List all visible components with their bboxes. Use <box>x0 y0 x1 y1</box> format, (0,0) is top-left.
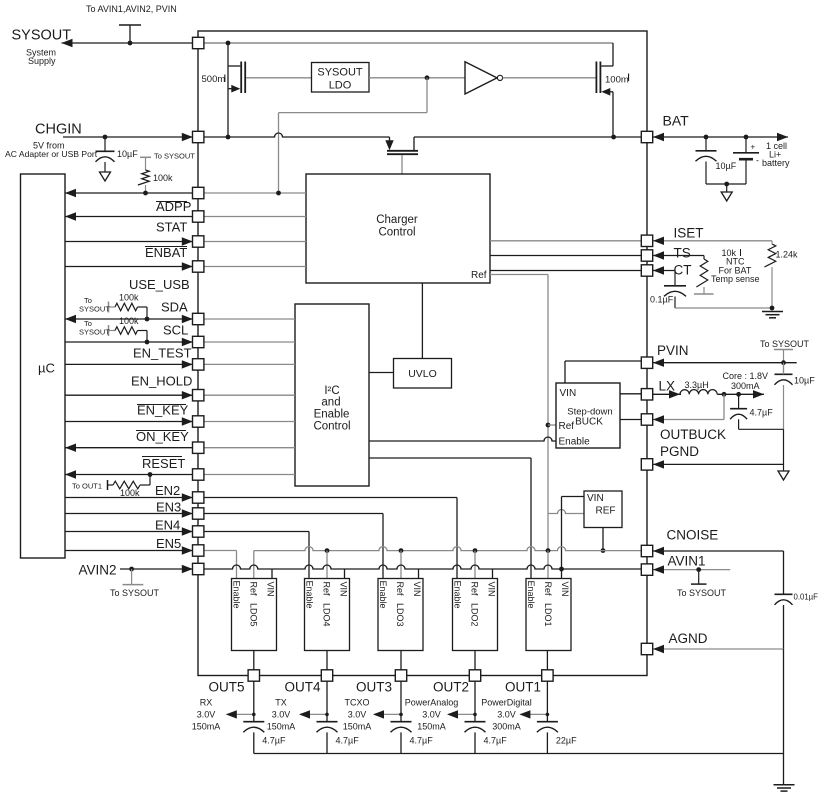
wire inverter output to 100m gate <box>503 77 597 79</box>
svg-text:SYSOUT: SYSOUT <box>79 328 110 337</box>
svg-text:10µF: 10µF <box>794 376 815 386</box>
svg-text:Ref: Ref <box>249 582 259 597</box>
node ADPP feedback junction <box>276 191 281 196</box>
wire STAT <box>65 212 306 220</box>
svg-text:UVLO: UVLO <box>408 368 437 380</box>
node ADPP pullup junction <box>143 191 148 196</box>
transistor 100m pass FET <box>596 43 613 137</box>
svg-text:To SYSOUT: To SYSOUT <box>760 339 810 349</box>
svg-text:OUTBUCK: OUTBUCK <box>660 427 726 442</box>
wire USE_USB <box>65 262 306 270</box>
wire battery ground rail <box>706 183 746 185</box>
label EN4 <box>155 518 180 533</box>
svg-text:300mA: 300mA <box>492 722 521 732</box>
wire VIN REF supply loop <box>562 497 585 579</box>
svg-text:BAT: BAT <box>663 113 690 129</box>
wire RESET <box>65 470 295 478</box>
wire inductor to output node <box>717 390 764 398</box>
wire AVIN2 input <box>120 565 193 573</box>
svg-text:VIN: VIN <box>560 388 577 399</box>
node battery ground junction <box>724 182 729 187</box>
label SDA <box>161 300 188 315</box>
svg-text:and: and <box>321 397 340 409</box>
wire EN_KEY <box>65 417 295 425</box>
regulator LDO5 <box>232 579 277 651</box>
label Core 1.8V 300mA <box>723 371 769 391</box>
svg-text:USE_USB: USE_USB <box>129 277 190 292</box>
svg-text:OUT1: OUT1 <box>505 680 541 695</box>
wire ON_KEY <box>65 444 295 452</box>
svg-text:Ref: Ref <box>471 270 487 281</box>
label 500m <box>202 74 226 85</box>
pin EN_KEY <box>193 416 204 427</box>
wire LDO2 VIN feed <box>492 569 494 579</box>
node SCL pullup junction <box>145 340 150 345</box>
svg-text:LDO4: LDO4 <box>322 603 332 627</box>
wire LDO3 VIN feed <box>418 569 420 579</box>
node AVIN1 tap <box>696 567 701 572</box>
terminal To SYSOUT pullup SCL <box>79 319 115 337</box>
svg-text:OUT3: OUT3 <box>356 680 392 695</box>
transistor charger pass FET Q3 <box>385 137 418 154</box>
terminal To SYSOUT pullup SDA <box>79 296 115 314</box>
capacitor 4.7uF at buck <box>730 394 773 429</box>
svg-text:4.7µF: 4.7µF <box>262 736 286 746</box>
svg-text:VIN: VIN <box>587 493 604 504</box>
label ISET <box>674 226 704 241</box>
svg-text:AGND: AGND <box>669 631 708 646</box>
wire 500m gate to SYSOUT LDO <box>246 77 312 79</box>
wire SYSOUT rail <box>204 42 614 44</box>
microcontroller uC box <box>21 174 66 558</box>
svg-text:22µF: 22µF <box>556 736 577 746</box>
wire LDO1 output <box>546 651 548 671</box>
capacitor 10uF at CHGIN <box>96 137 139 172</box>
label LX <box>659 379 676 394</box>
inverter U1 <box>465 62 503 94</box>
svg-text:VIN: VIN <box>412 582 422 597</box>
block Step-down BUCK <box>556 383 620 448</box>
wire buck to OUTBUCK pin <box>620 419 641 421</box>
svg-text:VIN: VIN <box>487 582 497 597</box>
svg-text:To OUT1: To OUT1 <box>72 482 102 491</box>
pin OUT1 <box>542 670 553 681</box>
svg-text:+: + <box>751 143 756 152</box>
pin EN4 <box>193 526 204 537</box>
svg-text:TX: TX <box>275 698 287 708</box>
svg-text:3.0V: 3.0V <box>197 710 216 720</box>
wire AVIN VIN bus <box>204 565 642 569</box>
svg-text:TCXO: TCXO <box>344 698 369 708</box>
svg-text:VIN: VIN <box>266 582 276 597</box>
svg-text:µC: µC <box>38 361 55 376</box>
wire PGND <box>653 429 784 471</box>
svg-text:ENBAT: ENBAT <box>145 245 187 260</box>
pin ADPP <box>193 187 204 198</box>
svg-text:PowerAnalog: PowerAnalog <box>405 698 459 708</box>
inductor 3.3uH <box>680 380 717 394</box>
label CT <box>674 263 692 278</box>
svg-text:I²C: I²C <box>324 385 339 397</box>
ground at 1.24k <box>762 312 783 318</box>
svg-text:Enable: Enable <box>314 409 350 421</box>
pin TS <box>641 250 652 261</box>
wire PVIN input <box>653 359 797 367</box>
wire OUT1 output <box>546 681 548 722</box>
node LDO output junction <box>425 75 430 80</box>
wire LDO4 output <box>326 651 328 671</box>
svg-text:Control: Control <box>378 227 415 239</box>
capacitor 4.7&#181;F at OUT2 <box>465 722 508 754</box>
label OUT3 load <box>343 698 372 732</box>
label CNOISE <box>667 528 719 543</box>
svg-text:150mA: 150mA <box>417 722 446 732</box>
wire 100k to ADPP <box>145 185 147 193</box>
resistor 100k R2 <box>115 293 139 311</box>
svg-text:Core : 1.8V: Core : 1.8V <box>723 371 769 381</box>
wire I2C to UVLO <box>369 372 394 374</box>
svg-text:ON_KEY: ON_KEY <box>136 429 189 444</box>
pin PVIN <box>641 357 652 368</box>
svg-text:RESET: RESET <box>142 456 185 471</box>
capacitor 4.7&#181;F at OUT5 <box>243 722 286 754</box>
svg-text:EN2: EN2 <box>155 483 180 498</box>
regulator LDO4 <box>305 579 350 651</box>
terminal To OUT1 pullup <box>72 480 113 491</box>
label CHGIN <box>35 122 82 138</box>
svg-text:PVIN: PVIN <box>657 343 689 358</box>
svg-text:To SYSOUT: To SYSOUT <box>154 152 195 161</box>
svg-text:0.01µF: 0.01µF <box>794 593 818 602</box>
pin EN_HOLD <box>193 390 204 401</box>
svg-text:Charger: Charger <box>376 214 418 226</box>
label OUTBUCK <box>660 427 726 442</box>
svg-text:EN_TEST: EN_TEST <box>133 346 192 361</box>
svg-text:-: - <box>756 156 759 166</box>
pin OUT3 <box>395 670 406 681</box>
node Ref bus LDO2 tap <box>473 548 478 578</box>
svg-text:Temp sense: Temp sense <box>711 274 760 284</box>
resistor 1.24k <box>764 241 798 267</box>
label OUT2 <box>433 680 469 695</box>
svg-text:3.0V: 3.0V <box>348 710 367 720</box>
wire OUT2 load arrow <box>447 710 477 718</box>
wire ISET external <box>653 237 772 245</box>
wire TS external <box>653 251 704 259</box>
svg-text:10µF: 10µF <box>117 149 138 159</box>
svg-text:SYSOUT: SYSOUT <box>79 305 110 314</box>
svg-text:Enable: Enable <box>526 581 536 609</box>
pin ISET <box>641 235 652 246</box>
PMIC chip outline <box>198 31 647 676</box>
svg-text:150mA: 150mA <box>192 722 221 732</box>
svg-text:100k: 100k <box>153 173 173 183</box>
ground at AGND rail <box>774 785 795 791</box>
svg-text:Ref: Ref <box>559 421 575 432</box>
wire OUT3 output <box>400 681 402 722</box>
transistor 500m pass FET <box>228 62 245 94</box>
wire CNOISE external <box>653 547 784 595</box>
node buck output B <box>736 392 741 397</box>
node BAT battery tap <box>744 135 749 140</box>
svg-text:PGND: PGND <box>660 444 699 459</box>
wire OUTBUCK feedback <box>653 394 724 423</box>
wire VIN REF output <box>602 528 604 551</box>
svg-text:LDO: LDO <box>329 80 352 92</box>
svg-text:LDO3: LDO3 <box>395 603 405 627</box>
svg-text:100m: 100m <box>605 75 629 86</box>
ground at PGND <box>778 471 789 480</box>
label OUT2 load <box>405 698 459 732</box>
pin SDA <box>193 313 204 324</box>
svg-text:3.0V: 3.0V <box>497 710 516 720</box>
node SYSOUT tap <box>128 41 133 46</box>
wire charger FET gate <box>401 155 403 174</box>
svg-text:STAT: STAT <box>156 220 187 235</box>
wire Ref branch to VIN REF <box>548 510 584 514</box>
wire CHGIN rail left <box>204 133 390 137</box>
pin EN3 <box>193 508 204 519</box>
pin USE_USB <box>193 261 204 272</box>
label ENBAT <box>145 245 187 260</box>
wire EN5 to LDO5 enable <box>65 546 237 578</box>
svg-text:Control: Control <box>313 421 350 433</box>
svg-text:To SYSOUT: To SYSOUT <box>677 588 727 598</box>
capacitor 4.7&#181;F at OUT4 <box>317 722 360 754</box>
label EN2 <box>155 483 180 498</box>
node Ref bus VIN REF junction <box>601 548 606 553</box>
svg-text:VIN: VIN <box>339 582 349 597</box>
svg-text:CNOISE: CNOISE <box>667 528 719 543</box>
label SCL <box>163 323 188 338</box>
svg-text:3.0V: 3.0V <box>272 710 291 720</box>
wire ENBAT <box>65 237 306 245</box>
wire TS internal <box>490 255 641 257</box>
wire CT external <box>653 266 675 286</box>
label OUT1 load <box>481 698 532 732</box>
wire BAT to battery <box>653 133 788 141</box>
label OUT1 <box>505 680 541 695</box>
svg-text:SYSOUT: SYSOUT <box>12 28 72 44</box>
wire EN2 to LDO2 enable <box>65 493 457 578</box>
capacitor 4.7&#181;F at OUT3 <box>391 722 434 754</box>
capacitor 0.1uF <box>650 286 686 308</box>
wire EN_TEST <box>65 360 295 368</box>
wire ISET internal <box>490 240 641 242</box>
wire LDO5 output <box>253 651 255 671</box>
wire 100k to SCL <box>138 331 148 343</box>
svg-text:Ref: Ref <box>395 582 405 597</box>
svg-text:4.7µF: 4.7µF <box>410 736 434 746</box>
capacitor 22&#181;F at OUT1 <box>537 722 577 754</box>
wire I2C to LDO1 enable <box>369 458 531 579</box>
wire LDO4 VIN feed <box>344 569 346 579</box>
label System Supply <box>26 48 56 67</box>
resistor 100k R4 <box>113 481 140 498</box>
pin OUT4 <box>321 670 332 681</box>
pin OUTBUCK <box>641 414 652 425</box>
wire OUT4 load arrow <box>299 710 329 718</box>
svg-text:CT: CT <box>674 263 692 278</box>
svg-text:BUCK: BUCK <box>575 417 603 428</box>
resistor 100k R3 <box>115 316 139 334</box>
pin STAT <box>193 211 204 222</box>
node CHGIN rail junction <box>226 135 231 140</box>
wire AGND <box>653 645 784 785</box>
label OUT5 load <box>192 698 221 732</box>
svg-text:LX: LX <box>659 379 676 394</box>
svg-text:SDA: SDA <box>161 300 188 315</box>
svg-text:SYSOUT: SYSOUT <box>317 67 363 79</box>
svg-text:Enable: Enable <box>378 581 388 609</box>
wire CHGIN rail right to BAT <box>414 136 641 138</box>
label SYSOUT <box>12 28 72 44</box>
node Ref bus LDO4 tap <box>325 548 330 578</box>
svg-text:4.7µF: 4.7µF <box>484 736 508 746</box>
terminal To SYSOUT pullup CHGIN <box>140 152 195 171</box>
pin PGND <box>641 459 652 470</box>
label ON_KEY <box>136 429 189 444</box>
svg-text:To SYSOUT: To SYSOUT <box>110 588 160 598</box>
pin ENBAT <box>193 236 204 247</box>
svg-text:AC Adapter or USB Port: AC Adapter or USB Port <box>5 149 98 159</box>
svg-text:SCL: SCL <box>163 323 188 338</box>
svg-text:Ref: Ref <box>543 582 553 597</box>
wire I2C to buck Enable <box>369 437 556 441</box>
label EN5 <box>156 536 181 551</box>
pin CNOISE <box>641 545 652 556</box>
wire ADPP <box>65 189 306 197</box>
label AVIN2 <box>79 563 117 578</box>
pin AGND <box>641 643 652 654</box>
label EN_HOLD <box>131 374 192 389</box>
svg-text:100k: 100k <box>119 293 139 303</box>
svg-text:EN_HOLD: EN_HOLD <box>131 374 192 389</box>
svg-text:OUT5: OUT5 <box>208 680 244 695</box>
svg-text:Enable: Enable <box>453 581 463 609</box>
wire OUT2 output <box>474 681 476 722</box>
wire LX output <box>653 390 681 398</box>
pin SYSOUT <box>193 37 204 48</box>
svg-text:To AVIN1,AVIN2, PVIN: To AVIN1,AVIN2, PVIN <box>86 4 177 14</box>
svg-text:OUT2: OUT2 <box>433 680 469 695</box>
svg-text:Supply: Supply <box>28 56 56 66</box>
wire EN_HOLD <box>65 391 295 399</box>
label PVIN <box>657 343 689 358</box>
svg-text:LDO5: LDO5 <box>249 603 259 627</box>
svg-text:3.3µH: 3.3µH <box>685 380 709 390</box>
wire SYSOUT LDO output <box>369 77 465 79</box>
label EN_TEST <box>133 346 192 361</box>
battery 1 cell Li+ <box>733 137 759 184</box>
wire 1.24k to ground rail <box>771 267 773 308</box>
wire Ref bus <box>254 547 642 579</box>
pin AVIN2 <box>193 563 204 574</box>
svg-text:REF: REF <box>596 506 616 517</box>
svg-text:EN5: EN5 <box>156 536 181 551</box>
svg-text:Enable: Enable <box>305 581 315 609</box>
svg-text:ISET: ISET <box>674 226 704 241</box>
svg-text:AVIN1: AVIN1 <box>668 554 706 569</box>
pin BAT <box>641 131 652 142</box>
wire LDO3 output <box>400 651 402 671</box>
pin AVIN1 <box>641 564 652 575</box>
block UVLO <box>394 359 452 389</box>
svg-text:EN3: EN3 <box>156 500 181 515</box>
label 5V from AC Adapter or USB Port <box>5 141 98 160</box>
svg-text:OUT4: OUT4 <box>284 680 320 695</box>
wire 500m FET source-drain rail <box>227 43 229 137</box>
resistor 10k NTC <box>696 259 707 287</box>
label ADPP <box>156 199 191 214</box>
pin EN2 <box>193 492 204 503</box>
label EN_KEY <box>137 403 189 418</box>
svg-text:CHGIN: CHGIN <box>35 122 82 138</box>
svg-text:AVIN2: AVIN2 <box>79 563 117 578</box>
terminal To SYSOUT at PVIN <box>760 339 810 374</box>
resistor 100k R1 <box>138 170 173 185</box>
svg-text:100k: 100k <box>120 488 140 498</box>
label EN3 <box>156 500 181 515</box>
node SDA pullup junction <box>145 317 150 322</box>
wire OUT5 output <box>253 681 255 722</box>
svg-text:Enable: Enable <box>232 581 242 609</box>
label OUT3 <box>356 680 392 695</box>
node CT rail ground junction <box>770 306 775 311</box>
terminal To SYSOUT at AVIN2 <box>110 569 160 598</box>
node Ref bus LDO3 tap <box>399 548 404 578</box>
svg-text:1.24k: 1.24k <box>776 250 799 260</box>
ground at CHGIN cap <box>100 172 111 181</box>
label 100m <box>605 74 629 86</box>
svg-text:300mA: 300mA <box>731 381 760 391</box>
block I2C and Enable Control <box>295 304 369 486</box>
svg-text:500m: 500m <box>202 74 226 85</box>
svg-text:0.1µF: 0.1µF <box>650 295 674 305</box>
wire LDO2 output <box>474 651 476 671</box>
ground at battery <box>721 184 732 201</box>
regulator LDO3 <box>378 579 423 651</box>
node VIN bus LDO1 junction <box>559 567 564 572</box>
wire LDO output feedback to ADPP net <box>279 78 428 193</box>
node BAT cap tap <box>704 135 709 140</box>
node PVIN supply tap <box>781 360 786 365</box>
capacitor 10uF at BAT <box>696 137 737 184</box>
block SYSOUT LDO <box>312 63 370 93</box>
wire PVIN to buck VIN <box>565 361 641 383</box>
label STAT <box>156 220 187 235</box>
wire OUT3 load arrow <box>373 710 403 718</box>
node buck Ref tap <box>546 423 551 428</box>
wire OUT4 output <box>326 681 328 722</box>
svg-text:Ref: Ref <box>322 582 332 597</box>
label PGND <box>660 444 699 459</box>
svg-text:4.7µF: 4.7µF <box>336 736 360 746</box>
svg-text:150mA: 150mA <box>267 722 296 732</box>
pin CHGIN <box>193 131 204 142</box>
svg-text:TS: TS <box>674 246 691 261</box>
svg-text:EN4: EN4 <box>155 518 180 533</box>
wire OUT5 load arrow <box>226 710 256 718</box>
svg-text:LDO2: LDO2 <box>470 603 480 627</box>
node CHGIN cap tap <box>103 135 108 140</box>
pin SCL <box>193 336 204 347</box>
wire CT ground rail <box>675 307 772 309</box>
wire charger to UVLO <box>421 283 423 359</box>
pin OUT5 <box>248 670 259 681</box>
label TS <box>674 246 691 261</box>
wire EN4 to LDO4 enable <box>65 527 309 578</box>
